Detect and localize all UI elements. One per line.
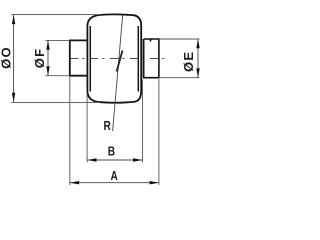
dim OF extension top: [45, 39, 69, 41]
dim OF line: [47, 41, 49, 76]
dim OE extension top: [159, 38, 200, 40]
dim OO extension bottom: [11, 101, 100, 103]
centerline (chain line): [70, 58, 169, 60]
right stub face line: [143, 39, 145, 78]
dim OE extension bottom: [159, 77, 200, 79]
outer ring right inner face line: [137, 26, 139, 92]
svg-text:R: R: [104, 119, 112, 133]
dim OF arrow down: [46, 66, 49, 75]
outer ring left inner face line: [89, 26, 91, 92]
dim A extension right: [158, 79, 160, 185]
dim OO arrow down: [12, 93, 15, 102]
crowning tick stroke: [117, 51, 123, 72]
dim OF extension bottom: [45, 75, 69, 77]
dim OO line: [13, 15, 15, 102]
R leader line: [113, 15, 123, 131]
centering notch on right stub: [149, 39, 152, 41]
dim B extension right: [142, 79, 144, 162]
dim A arrow right: [150, 181, 159, 184]
dim B arrow right: [133, 158, 142, 161]
right inner-ring stub: [144, 39, 159, 78]
svg-text:ØO: ØO: [0, 46, 14, 69]
svg-text:B: B: [108, 144, 115, 158]
dim OE arrow down: [196, 68, 199, 77]
dim A line: [70, 182, 159, 184]
dim B line: [87, 159, 142, 161]
dim OO extension top: [11, 14, 101, 16]
dim OF arrow up: [46, 40, 49, 49]
dim B extension left: [86, 94, 88, 163]
left inner-ring stub: [70, 40, 88, 75]
dim OE line: [197, 39, 199, 77]
svg-text:A: A: [111, 169, 119, 183]
dim B arrow left: [87, 158, 96, 161]
dim A extension left: [69, 77, 71, 185]
dim A arrow left: [70, 181, 79, 184]
dim OO arrow up: [12, 15, 15, 24]
svg-text:ØF: ØF: [32, 48, 47, 69]
dim OE arrow up: [196, 39, 199, 48]
svg-text:ØE: ØE: [181, 51, 196, 72]
outer ring barrel (crowned roller outline): [87, 14, 141, 102]
